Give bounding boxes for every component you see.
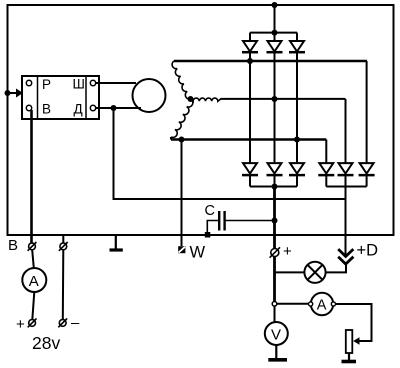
svg-text:W: W bbox=[190, 244, 206, 262]
node on output bus bbox=[272, 184, 278, 190]
svg-text:28v: 28v bbox=[32, 333, 60, 353]
battery - terminal (slashed) bbox=[59, 320, 66, 327]
wire + to lamp bbox=[275, 271, 305, 273]
svg-text:+: + bbox=[283, 243, 292, 260]
minus wire down bbox=[62, 250, 65, 320]
field diode 2 bbox=[338, 163, 354, 186]
svg-text:Ш: Ш bbox=[73, 77, 85, 92]
svg-text:Д: Д bbox=[74, 102, 83, 117]
negative diode 2 bbox=[267, 33, 283, 61]
W wire down bbox=[181, 140, 183, 247]
rotor (field winding) circle bbox=[133, 79, 166, 112]
node on connector bbox=[272, 30, 278, 36]
ground symbol on housing bottom bbox=[115, 235, 117, 249]
field rectifier output bus bbox=[326, 186, 366, 188]
svg-text:В: В bbox=[8, 237, 18, 254]
wire from left edge to regulator with arrowhead bbox=[8, 92, 18, 94]
terminal + (slashed) bbox=[271, 249, 279, 257]
capacitor C plates bbox=[218, 211, 220, 231]
node capacitor to + wire bbox=[272, 218, 278, 224]
stator phase A coil bbox=[172, 61, 190, 99]
svg-text:В: В bbox=[42, 102, 51, 117]
field diode 1 bbox=[318, 163, 334, 186]
svg-text:V: V bbox=[271, 327, 281, 344]
+D arrow chevron 1 bbox=[338, 249, 353, 256]
positive diode 2 bbox=[267, 163, 283, 186]
wire ammeter to + battery terminal bbox=[32, 292, 34, 320]
svg-text:С: С bbox=[205, 203, 215, 219]
node on left edge bbox=[5, 90, 11, 96]
rheostat ground stem bbox=[348, 353, 350, 361]
voltmeter ground stem bbox=[275, 345, 277, 359]
svg-text:A: A bbox=[29, 273, 39, 290]
svg-text:+: + bbox=[16, 316, 25, 333]
main + output wire (thick vertical) bbox=[273, 187, 276, 304]
ammeter (load) bbox=[311, 293, 333, 315]
node junction to meters bbox=[272, 302, 277, 307]
terminal B (slashed) bbox=[29, 243, 36, 250]
positive diode 3 bbox=[289, 163, 305, 186]
alternator housing frame bbox=[8, 5, 394, 235]
svg-text:Р: Р bbox=[42, 77, 51, 92]
svg-text:A: A bbox=[317, 298, 327, 314]
arrowhead into rheostat bbox=[353, 337, 359, 345]
wire node to ammeter bbox=[277, 303, 309, 305]
capacitor right wire bbox=[225, 220, 275, 222]
node on top edge bbox=[272, 2, 278, 8]
node on D wire bbox=[111, 105, 117, 111]
negative diode 1 bbox=[242, 33, 258, 61]
+D arrow chevron 2 bbox=[338, 257, 353, 264]
wire lamp to +D arrow bbox=[326, 264, 346, 272]
wire connector to housing top bbox=[274, 5, 276, 33]
node W tap bbox=[179, 137, 185, 143]
phase vertical x297 bbox=[296, 61, 298, 163]
positive diode 1 bbox=[242, 163, 258, 186]
star point node bbox=[188, 96, 194, 102]
node phase B to vertical bbox=[272, 96, 278, 102]
+D wire down bbox=[345, 187, 347, 257]
phase B wire bbox=[221, 98, 346, 100]
field diode vertical from phase A bbox=[366, 61, 368, 163]
capacitor ground square on housing bbox=[205, 232, 211, 238]
battery + terminal (slashed) bbox=[29, 320, 36, 327]
wire B terminal to ammeter bbox=[32, 250, 34, 268]
wire ammeter to rheostat bbox=[336, 304, 372, 341]
node phase A to vertical bbox=[247, 58, 253, 64]
svg-text:–: – bbox=[71, 315, 80, 332]
phase A bus bbox=[174, 60, 367, 63]
rheostat ground bar bbox=[342, 360, 357, 364]
regulator terminal circles bbox=[26, 80, 31, 85]
terminal minus stub bbox=[62, 236, 64, 243]
negative diode 3 bbox=[289, 33, 305, 61]
stator phase B coil bbox=[191, 98, 222, 101]
field diode vertical from phase C bbox=[325, 140, 327, 164]
phase vertical x250 bbox=[249, 61, 251, 163]
ammeter left terminal bbox=[309, 302, 313, 306]
voltage regulator box bbox=[22, 76, 99, 119]
negative diodes top connector bbox=[250, 32, 297, 34]
node phase C to vertical bbox=[294, 137, 300, 143]
battery ammeter bbox=[22, 268, 46, 292]
ammeter right terminal bbox=[331, 302, 335, 306]
capacitor left wire to ground bbox=[207, 221, 219, 235]
wire Sh terminal to rotor bbox=[96, 82, 136, 84]
terminal W (slashed) bbox=[178, 246, 185, 253]
D wire down and right to +D line bbox=[114, 108, 346, 199]
phase vertical x274 bbox=[274, 61, 276, 163]
voltmeter ground bar bbox=[268, 358, 287, 362]
wire D terminal to rotor bbox=[96, 107, 141, 109]
lamp bbox=[304, 262, 325, 283]
field diode vertical from phase B bbox=[345, 99, 347, 163]
wire node to voltmeter bbox=[274, 306, 276, 322]
field diode 3 bbox=[359, 163, 375, 186]
B output wire (thick) bbox=[30, 110, 33, 243]
stator phase C coil bbox=[171, 99, 193, 137]
terminal (housing minus, slashed) bbox=[60, 243, 67, 250]
svg-text:+D: +D bbox=[357, 242, 379, 260]
phase C bus bbox=[170, 137, 172, 140]
voltmeter bbox=[265, 322, 288, 345]
rheostat (load resistor) bbox=[346, 330, 353, 353]
positive rectifier output bus bbox=[250, 186, 297, 188]
